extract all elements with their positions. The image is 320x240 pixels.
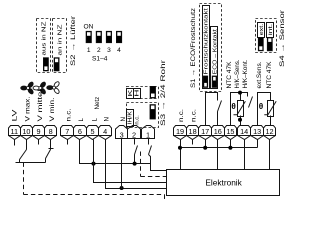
svg-text:V mittel: V mittel xyxy=(37,90,44,122)
junction node N (terminal 3) xyxy=(120,186,124,190)
ext. sensor contact blade xyxy=(249,97,253,108)
S1 switch position Frostschutz xyxy=(203,76,208,88)
svg-text:19: 19 xyxy=(176,127,184,136)
svg-text:NTC 47K: NTC 47K xyxy=(266,62,273,89)
svg-text:7: 7 xyxy=(65,127,69,136)
fan icon V mittel (2 black blades) xyxy=(33,81,46,95)
wire loop terminal 15 to ext. contact corner xyxy=(231,93,248,126)
terminal 4 xyxy=(99,126,112,140)
wire terminal 13 to bus end xyxy=(257,140,259,148)
svg-text:L: L xyxy=(92,118,99,122)
fan icon V min (1 black blade) xyxy=(47,81,60,95)
terminal 8 xyxy=(45,126,57,140)
svg-text:n.c.: n.c. xyxy=(135,115,141,125)
svg-text:H/K–Kont.: H/K–Kont. xyxy=(242,59,249,88)
svg-text:H: H xyxy=(135,90,141,97)
svg-text:15: 15 xyxy=(226,127,234,136)
svg-text:θ: θ xyxy=(231,102,236,111)
svg-text:10: 10 xyxy=(22,127,30,136)
switch S2 option box: aus in NZ xyxy=(37,19,51,73)
terminal 5 xyxy=(87,126,99,140)
fan selector contact from terminal 10 xyxy=(26,140,28,150)
terminal 6 xyxy=(74,126,87,140)
svg-text:3: 3 xyxy=(107,47,111,54)
terminal 16 xyxy=(212,126,225,140)
svg-text:θ: θ xyxy=(259,102,264,111)
terminal 18 xyxy=(187,126,199,140)
wire loop terminal 13 to 12 xyxy=(258,93,271,126)
S3 switch position 2-Rohr xyxy=(150,105,156,120)
S1 relay contact between terminals 17 and 16 xyxy=(206,93,218,126)
thermistor NTC external (theta symbol) xyxy=(259,101,276,117)
svg-text:aus in NZ: aus in NZ xyxy=(41,21,47,56)
dashed alternative wire from terminal 2 to Elektronik xyxy=(140,152,142,177)
S1 switch position ECO xyxy=(212,76,217,88)
svg-text:int.: int. xyxy=(268,23,274,35)
svg-text:17: 17 xyxy=(201,127,209,136)
Elektronik box xyxy=(167,170,280,196)
boxed label K (terminal 2, 4-Rohr) xyxy=(127,89,134,99)
dashed wire from fan rail to Elektronik xyxy=(23,163,25,195)
boxed label IH/K (terminal 2, 2-Rohr) xyxy=(127,110,134,127)
svg-text:NTC 47K: NTC 47K xyxy=(226,62,233,89)
terminal 3 (plug) xyxy=(116,126,128,139)
wire terminal 3 (N) xyxy=(121,139,123,189)
wire terminal 16 to Elektronik xyxy=(217,140,219,170)
thermistor NTC internal (theta symbol) xyxy=(231,101,245,117)
wire terminal 12 to Elektronik xyxy=(269,140,271,170)
terminal 10 xyxy=(21,126,33,140)
wire terminal 17 to bus xyxy=(205,140,207,148)
svg-text:H/K–Sens.: H/K–Sens. xyxy=(234,59,241,88)
S4 switch position int. xyxy=(267,37,272,51)
S2 switch position: an xyxy=(54,58,59,71)
wire terminal 19 to Elektronik xyxy=(180,140,182,170)
svg-text:N: N xyxy=(103,117,110,121)
svg-text:ext.: ext. xyxy=(259,23,265,35)
svg-text:9: 9 xyxy=(36,127,40,136)
svg-text:K: K xyxy=(128,89,134,96)
svg-text:n.c.: n.c. xyxy=(66,108,73,121)
svg-text:Netz: Netz xyxy=(94,97,101,110)
svg-text:4: 4 xyxy=(117,47,121,54)
svg-text:LV: LV xyxy=(12,108,19,121)
boxed label H (terminal 1, 4-Rohr) xyxy=(134,89,141,99)
svg-text:S1–4: S1–4 xyxy=(92,56,108,63)
terminal 12 xyxy=(264,126,276,140)
terminal 14 xyxy=(238,126,251,140)
svg-text:S2 → Lüfter: S2 → Lüfter xyxy=(70,16,77,66)
boxed label int. xyxy=(267,23,274,38)
svg-text:18: 18 xyxy=(189,127,197,136)
terminal 7 xyxy=(61,126,74,140)
svg-text:1: 1 xyxy=(146,130,150,139)
svg-text:V min.: V min. xyxy=(49,97,56,121)
wire terminal 5 (L) down to Elektronik xyxy=(94,140,167,183)
terminal 2 (plug) xyxy=(128,126,141,139)
svg-text:ECO – Kontakt: ECO – Kontakt xyxy=(212,29,218,75)
svg-text:6: 6 xyxy=(78,127,82,136)
svg-text:14: 14 xyxy=(240,127,248,136)
DIP switch 2 xyxy=(96,31,102,43)
svg-text:an in NZ: an in NZ xyxy=(58,24,64,56)
sensor common bus xyxy=(181,147,258,149)
wire stub terminal 9 xyxy=(38,140,40,145)
terminal 17 xyxy=(199,126,212,140)
wire terminal 14 to Elektronik xyxy=(244,140,246,170)
svg-text:4: 4 xyxy=(103,127,107,136)
S2 switch position: aus xyxy=(43,58,48,71)
wire stub terminal 11 xyxy=(14,140,16,146)
DIP switch 3 xyxy=(106,31,112,43)
switch S2 option box: an in NZ xyxy=(53,19,67,73)
junction node at terminal 2 contact xyxy=(133,162,137,166)
fan icon V max (3 black blades) xyxy=(21,81,34,95)
terminal 19 xyxy=(174,126,187,140)
svg-text:S3 → 2/4 Rohr: S3 → 2/4 Rohr xyxy=(160,60,167,126)
DIP switch 1 xyxy=(86,31,92,43)
svg-text:n.c.: n.c. xyxy=(178,109,185,122)
boxed label ext. xyxy=(258,23,265,38)
S4 switch position ext. xyxy=(258,37,263,51)
svg-text:5: 5 xyxy=(90,127,94,136)
svg-text:L: L xyxy=(78,118,85,122)
contact at terminal 2 xyxy=(134,139,136,145)
svg-text:S1 → ECO/Frostschutz: S1 → ECO/Frostschutz xyxy=(190,8,197,88)
svg-text:ON: ON xyxy=(84,24,94,31)
terminal 1 (plug) xyxy=(142,126,155,139)
boxed label Frostschutzkontakt xyxy=(203,6,210,89)
svg-text:Elektronik: Elektronik xyxy=(205,177,242,187)
svg-text:2: 2 xyxy=(132,130,136,139)
boxed label ECO-Kontakt xyxy=(211,27,218,89)
svg-text:16: 16 xyxy=(214,127,222,136)
fan selector common rail xyxy=(16,162,46,164)
S3 switch position 4-Rohr xyxy=(150,86,156,98)
wire stub terminal 7 xyxy=(67,140,69,145)
wire terminal 15 to bus xyxy=(230,140,232,148)
svg-text:1: 1 xyxy=(87,47,91,54)
terminal 15 xyxy=(225,126,237,140)
thermistor NTC internal on terminal 14 wire xyxy=(240,93,242,101)
DIP switch 4 xyxy=(116,31,122,43)
svg-text:IH/K: IH/K xyxy=(128,111,134,125)
terminal 13 xyxy=(251,126,264,140)
contact at terminal 1 xyxy=(148,139,150,145)
svg-text:3: 3 xyxy=(120,130,124,139)
S4 option dashed box xyxy=(256,19,277,53)
svg-text:8: 8 xyxy=(49,127,53,136)
terminal 9 xyxy=(33,126,45,140)
svg-text:11: 11 xyxy=(11,127,19,136)
S1 option dashed box xyxy=(200,4,222,92)
S3 option box: 2-Rohr (IH/K / n.c.) xyxy=(127,103,159,128)
svg-text:n.c.: n.c. xyxy=(190,109,197,122)
wire terminal 1 to Elektronik corner xyxy=(149,155,167,171)
S3 option box: 4-Rohr (K / H) xyxy=(127,87,159,99)
svg-text:ext.Sens.: ext.Sens. xyxy=(256,61,263,88)
wire terminal 4 (N) to Elektronik xyxy=(106,140,167,189)
svg-text:12: 12 xyxy=(265,127,273,136)
svg-text:2: 2 xyxy=(97,47,101,54)
wire terminal 6 (L) to junction rail xyxy=(80,140,151,164)
wire stub terminal 18 xyxy=(192,140,194,145)
terminal 11 xyxy=(9,126,21,140)
junction node L (terminal 5 tap) xyxy=(92,162,96,166)
svg-text:13: 13 xyxy=(253,127,261,136)
svg-text:S4 → Sensor: S4 → Sensor xyxy=(280,10,286,67)
fan selector contact from terminal 8 with tick xyxy=(50,140,52,150)
svg-text:Frostschutzkontakt: Frostschutzkontakt xyxy=(203,8,209,75)
svg-text:N: N xyxy=(120,117,127,121)
svg-text:V max.: V max. xyxy=(25,96,32,121)
